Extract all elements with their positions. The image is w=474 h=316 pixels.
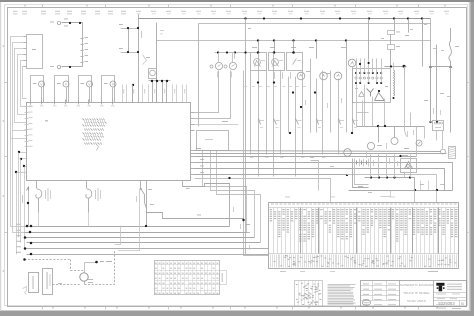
svg-text:5329383: 5329383 [438, 301, 455, 306]
svg-text:B: B [461, 302, 464, 306]
svg-text:TRUCK ‘B’ MODEL: TRUCK ‘B’ MODEL [403, 291, 430, 295]
svg-text:50 SD UNITS: 50 SD UNITS [407, 299, 426, 303]
svg-text:SCHEMATIC DIAGRAM: SCHEMATIC DIAGRAM [400, 283, 434, 287]
